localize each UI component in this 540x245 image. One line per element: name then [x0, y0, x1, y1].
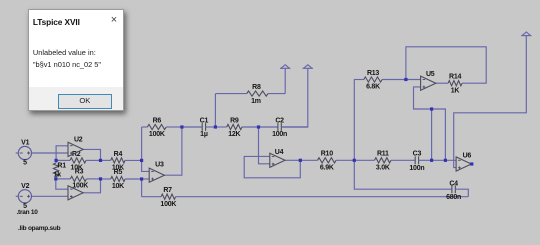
svg-text:1K: 1K	[451, 87, 460, 94]
svg-text:6.9K: 6.9K	[320, 165, 334, 172]
capacitor C1	[182, 117, 216, 138]
flag F3	[521, 32, 531, 36]
wire V1 to U2 plus	[32, 152, 69, 154]
dialog LTspice XVII message box	[28, 9, 124, 111]
wire R4 node up to R6 line	[141, 127, 143, 160]
resistor R3	[56, 169, 101, 190]
wire R1 bottom node to U1 minus	[56, 179, 68, 189]
wire R8 branch left leg	[214, 94, 216, 127]
op-amp U2	[68, 136, 83, 156]
wire mid node up to R13	[353, 80, 355, 161]
wire U5 plus input path	[414, 87, 446, 160]
wire R4 node down to U3 minus	[142, 160, 150, 171]
resistor R4	[101, 151, 142, 172]
svg-text:1µ: 1µ	[200, 131, 208, 138]
resistor R2	[56, 151, 100, 172]
resistor R6	[142, 117, 182, 138]
wire U4 feedback loop	[244, 156, 300, 177]
svg-text:U3: U3	[155, 162, 164, 169]
wire C1 node down to U4 plus	[259, 127, 270, 164]
svg-text:1m: 1m	[251, 98, 261, 105]
svg-text:R9: R9	[230, 117, 239, 124]
resistor R14	[436, 74, 463, 95]
svg-text:R8: R8	[252, 84, 261, 91]
svg-text:3.0K: 3.0K	[376, 165, 390, 172]
wire U1 output feedback up	[83, 179, 100, 193]
wire C2 to flag	[281, 68, 308, 127]
svg-text:U2: U2	[74, 136, 83, 143]
svg-text:C4: C4	[449, 181, 458, 188]
svg-text:R3: R3	[75, 169, 84, 176]
svg-text:C3: C3	[413, 151, 422, 158]
svg-text:.lib opamp.sub: .lib opamp.sub	[18, 225, 61, 232]
svg-text:R1: R1	[57, 163, 66, 170]
svg-text:R10: R10	[321, 151, 333, 158]
wire U3 output up to C1 node	[164, 127, 182, 175]
svg-text:C2: C2	[275, 117, 284, 124]
op-amp U4	[270, 149, 285, 168]
svg-text:100n: 100n	[409, 165, 424, 172]
resistor R10	[300, 151, 354, 172]
wire U5 feedback loop	[406, 47, 486, 83]
flag F1	[280, 65, 290, 69]
svg-text:U4: U4	[275, 149, 284, 156]
op-amp U5	[421, 71, 436, 90]
svg-text:R7: R7	[163, 187, 172, 194]
svg-text:6.8K: 6.8K	[366, 84, 380, 91]
resistor R5	[101, 169, 142, 190]
wire U3 plus down to bottom line	[141, 179, 143, 197]
voltage source V1	[16, 140, 32, 167]
svg-text:R5: R5	[114, 169, 123, 176]
svg-text:100K: 100K	[149, 131, 165, 138]
resistor R8	[215, 84, 285, 105]
wire R8 branch right leg to flag	[284, 68, 286, 93]
svg-text:R14: R14	[449, 74, 461, 81]
wire C4 right to bottom line	[457, 189, 468, 197]
svg-text:V1: V1	[21, 140, 29, 147]
resistor R1	[53, 160, 66, 179]
svg-text:.tran 10: .tran 10	[17, 209, 39, 216]
svg-text:U6: U6	[463, 152, 472, 159]
wire U6 plus to top flag	[454, 36, 527, 168]
resistor R13	[354, 70, 421, 91]
resistor R9	[215, 117, 258, 138]
wire R5 node to U3 plus	[142, 178, 150, 180]
svg-text:V2: V2	[21, 183, 29, 190]
op-amp U3	[149, 162, 164, 183]
svg-text:U5: U5	[426, 71, 435, 78]
wire U4 output	[285, 159, 300, 161]
flag F2	[303, 65, 313, 69]
capacitor C2	[259, 117, 308, 138]
resistor R7	[142, 187, 469, 208]
wire V2 to U1 plus	[32, 195, 69, 197]
capacitor C4	[446, 181, 461, 201]
svg-text:12K: 12K	[228, 131, 240, 138]
wire R1 top node to U2 minus	[56, 146, 68, 161]
capacitor C3	[409, 151, 456, 172]
svg-text:680n: 680n	[446, 194, 461, 201]
resistor R11	[354, 151, 413, 172]
wire U5 plus mid tie	[431, 109, 433, 160]
svg-text:10K: 10K	[112, 183, 124, 190]
svg-text:100K: 100K	[160, 201, 176, 208]
svg-text:C1: C1	[200, 117, 209, 124]
wire C4 branch	[354, 160, 450, 189]
op-amp U6	[456, 152, 471, 171]
svg-text:100n: 100n	[272, 131, 287, 138]
svg-text:R11: R11	[377, 151, 389, 158]
op-amp U1	[68, 186, 83, 200]
svg-text:5: 5	[23, 160, 27, 167]
voltage source V2	[16, 183, 32, 210]
svg-text:R6: R6	[153, 117, 162, 124]
svg-text:R13: R13	[367, 70, 379, 77]
wire U2 output feedback down	[83, 149, 100, 160]
svg-text:R4: R4	[114, 151, 123, 158]
